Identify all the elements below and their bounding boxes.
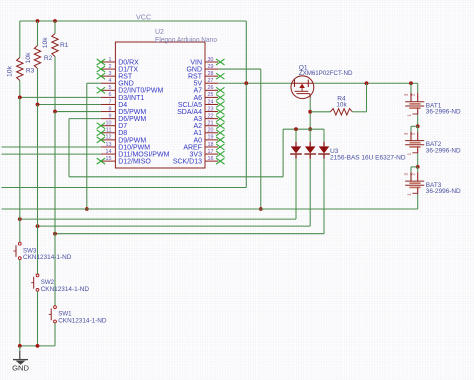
svg-text:36-2996-ND: 36-2996-ND — [426, 147, 461, 154]
pin 30 VIN — [190, 57, 224, 67]
svg-text:ZXM61P02FCT-ND: ZXM61P02FCT-ND — [299, 70, 353, 77]
junction node switch 2 — [36, 224, 40, 228]
wire D5 pin8 — [55, 111, 101, 113]
svg-text:5V: 5V — [193, 81, 202, 88]
label BAT2 — [426, 141, 442, 148]
svg-text:29: 29 — [208, 64, 214, 70]
wire R4 right lead — [352, 111, 366, 113]
battery BAT2 — [403, 126, 424, 155]
svg-text:R2: R2 — [44, 55, 53, 62]
svg-text:3V3: 3V3 — [190, 151, 203, 158]
pin 15 D12/MISO — [97, 156, 152, 166]
svg-text:GND: GND — [186, 66, 202, 73]
diode D3 of U3 — [318, 129, 330, 159]
svg-text:D5/PWM: D5/PWM — [118, 109, 146, 116]
junction GND pin29 — [259, 207, 263, 211]
battery BAT3 — [403, 167, 424, 196]
junction BAT1 pin3 — [409, 81, 413, 85]
svg-text:SCK/D13: SCK/D13 — [173, 159, 202, 166]
pin 6 D3/INT1 — [101, 92, 144, 102]
switch SW1 — [49, 306, 107, 325]
wire GND pin29 horizontal — [218, 68, 261, 70]
wire node D4 down to SW2 — [37, 104, 39, 273]
svg-text:GND: GND — [118, 81, 134, 88]
IC U2 outline — [115, 42, 205, 168]
svg-text:14: 14 — [106, 149, 112, 155]
svg-text:26: 26 — [208, 85, 214, 91]
wire VCC to R2 — [37, 21, 39, 46]
pin 11 D8 — [97, 128, 128, 138]
transistor Q1 — [291, 76, 314, 99]
wire switch gnd rail — [20, 345, 55, 347]
svg-text:23: 23 — [208, 106, 214, 112]
svg-text:1: 1 — [109, 57, 112, 63]
wire SW1 to gnd rail — [54, 323, 56, 346]
value Elegoo Arduino Nano — [155, 37, 217, 44]
svg-text:5: 5 — [109, 85, 112, 91]
svg-text:3: 3 — [109, 71, 112, 77]
svg-text:A2: A2 — [193, 123, 202, 130]
pin 23 SDA/A4 — [177, 106, 224, 116]
svg-text:A7: A7 — [193, 88, 202, 95]
svg-text:10k: 10k — [42, 37, 49, 49]
pin 13 D10/PWM — [101, 142, 150, 152]
svg-text:D3/INT1: D3/INT1 — [118, 95, 144, 102]
svg-text:R3: R3 — [26, 68, 35, 75]
value 36-2996-ND of BAT3 — [426, 188, 461, 195]
pin 29 GND — [186, 64, 218, 74]
svg-text:D11/MOSI/PWM: D11/MOSI/PWM — [118, 151, 169, 158]
label BAT1 — [426, 102, 442, 109]
junction GND pin4 — [85, 207, 89, 211]
junction rail-D1 — [294, 127, 298, 131]
svg-text:Elegoo Arduino Nano: Elegoo Arduino Nano — [155, 37, 217, 44]
pin 7 D4 — [101, 99, 127, 109]
junction gate-rail — [308, 127, 312, 131]
pin 16 SCK/D13 — [173, 156, 225, 166]
junction gnd rail SW3 — [18, 344, 22, 348]
svg-text:12: 12 — [106, 135, 112, 141]
svg-text:11: 11 — [106, 128, 112, 134]
pin 27 5V — [193, 78, 218, 88]
label U2 — [155, 29, 164, 36]
pin 1 D0/RX — [97, 57, 139, 67]
pin 26 A7 — [193, 85, 224, 95]
wire VCC horizontal — [20, 20, 247, 22]
svg-text:13: 13 — [106, 142, 112, 148]
svg-text:2: 2 — [109, 64, 112, 70]
junction Q1-R4 right — [365, 81, 369, 85]
wire R1 to node D5 — [54, 57, 56, 112]
svg-text:R1: R1 — [60, 42, 69, 49]
pin 18 AREF — [183, 142, 224, 152]
svg-text:36-2996-ND: 36-2996-ND — [426, 188, 461, 195]
svg-text:CKN12314-1-ND: CKN12314-1-ND — [58, 318, 107, 325]
svg-text:36-2996-ND: 36-2996-ND — [426, 109, 461, 116]
svg-text:D7: D7 — [118, 123, 127, 130]
svg-text:8: 8 — [109, 106, 112, 112]
svg-text:SCL/A5: SCL/A5 — [178, 102, 202, 109]
pin 10 D7 — [97, 121, 128, 131]
junction node D4 — [36, 103, 40, 107]
wire BAT1 to BAT2 — [417, 115, 419, 127]
pin 25 A6 — [193, 92, 224, 102]
svg-text:D4: D4 — [118, 102, 127, 109]
value 2156-BAS 16U E6327-ND of U3 — [330, 154, 406, 161]
label R4 — [337, 96, 346, 103]
wire GND pin29 vertical — [260, 69, 262, 209]
svg-text:VIN: VIN — [190, 59, 202, 66]
junction node switch 3 — [53, 232, 57, 236]
wire diode D3 cathode down — [323, 159, 325, 234]
label GND — [12, 364, 29, 373]
pin 2 D1/TX — [97, 64, 139, 74]
svg-text:10k: 10k — [25, 52, 32, 64]
junction node switch 1 — [18, 217, 22, 221]
wire diode D2 to switch column — [38, 225, 311, 227]
wire diode D2 cathode down — [309, 159, 311, 226]
wire VCC to R3 — [19, 21, 21, 58]
value 10k of R4 — [336, 101, 347, 108]
junction Q1-R4 — [308, 110, 312, 114]
svg-text:GND: GND — [12, 364, 29, 373]
svg-text:4: 4 — [109, 78, 112, 84]
svg-text:16: 16 — [208, 156, 214, 162]
resistor R1 — [52, 34, 58, 57]
wire D6 loop bottom — [69, 176, 283, 178]
wire VCC down to 5V junction — [245, 21, 247, 83]
junction BAT1-BAT2 — [416, 124, 420, 128]
svg-text:28: 28 — [208, 71, 214, 77]
wire VCC to R1 — [54, 21, 56, 34]
svg-text:A1: A1 — [193, 130, 202, 137]
junction VCC-R1 — [53, 19, 57, 23]
value 36-2996-ND of BAT2 — [426, 147, 461, 154]
wire GND pin4 horizontal — [87, 82, 101, 84]
value 10k of R3 — [7, 65, 14, 77]
wire node switch3 horizontal — [19, 218, 21, 220]
junction gnd rail SW2 — [36, 344, 40, 348]
battery BAT1 — [403, 83, 424, 116]
wire D11 pin14 to left edge — [2, 153, 101, 155]
wire D6 vertical — [68, 119, 70, 177]
ground — [13, 346, 28, 365]
pin 20 A1 — [193, 128, 224, 138]
wire 5V to left edge — [2, 187, 247, 189]
svg-text:SDA/A4: SDA/A4 — [177, 109, 202, 116]
wire GND long horizontal — [2, 208, 418, 210]
wire R4 left lead — [310, 111, 330, 113]
resistor R4 — [330, 109, 352, 115]
wire diode anode rail — [283, 128, 324, 130]
wire BAT3 to GND — [417, 194, 419, 209]
svg-text:20: 20 — [208, 128, 214, 134]
wire 5V down — [245, 83, 247, 187]
svg-text:D6/PWM: D6/PWM — [118, 116, 146, 123]
wire node D5 down to SW1 — [54, 112, 56, 306]
svg-text:RST: RST — [188, 74, 203, 81]
diode D1 of U3 — [290, 129, 302, 159]
wire D3 pin6 — [20, 96, 101, 98]
svg-text:17: 17 — [208, 149, 214, 155]
wire diode D1 cathode down — [295, 159, 297, 219]
label BAT3 — [426, 182, 442, 189]
wire node D3 down to SW3 — [19, 97, 21, 242]
pin 4 GND — [101, 78, 134, 88]
svg-text:CKN12314-1-ND: CKN12314-1-ND — [41, 286, 90, 293]
switch SW3 — [14, 242, 72, 261]
svg-text:10k: 10k — [7, 65, 14, 77]
svg-text:19: 19 — [208, 135, 214, 141]
resistor R3 — [17, 58, 23, 81]
label R3 — [26, 68, 35, 75]
svg-text:D2/INT0/PWM: D2/INT0/PWM — [118, 88, 163, 95]
svg-text:D10/PWM: D10/PWM — [118, 144, 150, 151]
pin 5 D2/INT0/PWM — [97, 85, 164, 95]
junction VCC-R2 — [36, 19, 40, 23]
svg-text:7: 7 — [109, 99, 112, 105]
svg-text:VCC: VCC — [136, 13, 151, 22]
svg-text:2156-BAS 16U E6327-ND: 2156-BAS 16U E6327-ND — [330, 154, 406, 161]
wire Q1 drain to rail — [309, 98, 311, 129]
junction BAT2-BAT3 — [416, 165, 420, 169]
wire D6 up to diode rail — [282, 129, 284, 177]
label U3 — [330, 148, 339, 155]
pin 3 RST — [97, 71, 133, 81]
svg-text:CKN12314-1-ND: CKN12314-1-ND — [23, 254, 72, 261]
svg-text:10: 10 — [106, 121, 112, 127]
value 10k of R1 — [42, 37, 49, 49]
svg-text:D8: D8 — [118, 130, 127, 137]
wire Q1 to battery — [314, 82, 418, 84]
pin 21 A2 — [193, 121, 224, 131]
wire R4 right vertical — [366, 83, 368, 112]
svg-text:6: 6 — [109, 92, 112, 98]
switch SW2 — [31, 274, 89, 293]
pin 14 D11/MOSI/PWM — [101, 149, 170, 159]
label Q1 — [299, 64, 308, 71]
value 36-2996-ND of BAT1 — [426, 109, 461, 116]
junction node D5 — [53, 110, 57, 114]
svg-text:27: 27 — [208, 78, 214, 84]
pin 28 RST — [188, 71, 225, 81]
svg-text:18: 18 — [208, 142, 214, 148]
svg-text:A6: A6 — [193, 95, 202, 102]
label R2 — [44, 55, 53, 62]
svg-text:30: 30 — [208, 57, 214, 63]
svg-text:D12/MISO: D12/MISO — [118, 159, 151, 166]
wire 5V pin27 — [218, 82, 291, 84]
value ZXM61P02FCT-ND of Q1 — [299, 70, 353, 77]
wire D10 pin13 to left edge — [2, 146, 101, 148]
svg-text:D0/RX: D0/RX — [118, 59, 139, 66]
svg-text:15: 15 — [106, 156, 112, 162]
junction 5V-VCC — [244, 81, 248, 85]
svg-text:24: 24 — [208, 99, 214, 105]
svg-text:21: 21 — [208, 121, 214, 127]
wire BAT2 to BAT3 — [417, 153, 419, 167]
net label VCC — [136, 13, 151, 22]
svg-text:10k: 10k — [336, 101, 347, 108]
pin 9 D6/PWM — [101, 113, 146, 123]
wire SW3 to gnd rail — [19, 260, 21, 346]
label R1 — [60, 42, 69, 49]
svg-text:9: 9 — [109, 113, 112, 119]
svg-text:22: 22 — [208, 113, 214, 119]
pin 19 A0 — [193, 135, 224, 145]
svg-text:A0: A0 — [193, 137, 202, 144]
resistor R2 — [34, 46, 40, 69]
wire D4 pin7 — [38, 103, 101, 105]
wire diode D3 to switch column — [55, 233, 324, 235]
wire D6 pin9 horizontal — [69, 118, 101, 120]
pin 17 3V3 — [190, 149, 225, 159]
svg-text:A3: A3 — [193, 116, 202, 123]
wire R3 to node D3 — [19, 81, 21, 98]
svg-text:D9/PWM: D9/PWM — [118, 137, 146, 144]
wire GND pin4 vertical — [86, 83, 88, 209]
diode D2 of U3 — [304, 129, 316, 159]
svg-text:RST: RST — [118, 74, 133, 81]
svg-text:25: 25 — [208, 92, 214, 98]
pin 24 SCL/A5 — [178, 99, 225, 109]
pin 8 D5/PWM — [101, 106, 146, 116]
svg-text:AREF: AREF — [183, 144, 202, 151]
svg-text:U2: U2 — [155, 29, 164, 36]
wire R2 to node D4 — [37, 69, 39, 105]
pin 22 A3 — [193, 113, 224, 123]
svg-text:D1/TX: D1/TX — [118, 66, 138, 73]
wire diode D1 to switch column — [20, 218, 296, 220]
junction node D3 — [18, 96, 22, 100]
wire SW2 to gnd rail — [37, 291, 39, 346]
value 10k of R2 — [25, 52, 32, 64]
pin 12 D9/PWM — [97, 135, 147, 145]
